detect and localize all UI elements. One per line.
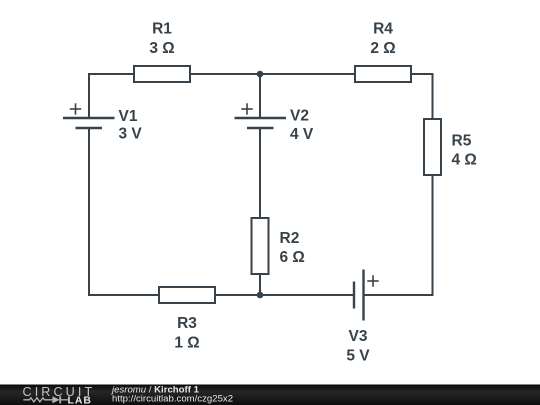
- svg-text:http://circuitlab.com/czg25x2: http://circuitlab.com/czg25x2: [112, 394, 233, 405]
- plus sign V1: [70, 103, 81, 114]
- resistor R1: [134, 66, 190, 82]
- wire: R2 bottom pin down to node B: [259, 274, 261, 295]
- svg-text:3 Ω: 3 Ω: [149, 40, 174, 57]
- wire: bottom middle horizontal (R3 right pin through node B to V3 - plate): [215, 294, 354, 296]
- resistor R4: [355, 66, 411, 82]
- plus sign V3: [367, 275, 378, 286]
- wire: bottom-right horizontal (V3 + plate to right rail): [364, 294, 434, 296]
- wire: left rail lower (V1 - plate down to bottom wire): [88, 128, 90, 296]
- battery V1: [63, 118, 115, 128]
- svg-text:4 V: 4 V: [290, 126, 314, 143]
- svg-text:6 Ω: 6 Ω: [280, 249, 305, 266]
- svg-text:V2: V2: [290, 108, 309, 125]
- svg-text:1 Ω: 1 Ω: [174, 335, 199, 352]
- svg-text:V1: V1: [119, 108, 138, 125]
- battery V2: [235, 118, 287, 128]
- plus sign V2: [241, 103, 252, 114]
- wire: V2 branch upper (node A down to V2 + plate): [259, 74, 261, 118]
- logo diode triangle: [52, 396, 59, 403]
- wire: bottom-left horizontal (left rail to R3 left pin): [88, 294, 160, 296]
- svg-text:4 Ω: 4 Ω: [452, 152, 477, 169]
- wire: right rail lower (R5 bottom pin down to bottom wire): [432, 175, 434, 296]
- resistor R2: [252, 218, 269, 274]
- wire: top middle horizontal (R1 right pin through node A to R4 left pin): [190, 73, 356, 75]
- svg-text:5 V: 5 V: [346, 348, 370, 365]
- node B (bottom junction): [257, 292, 264, 299]
- svg-text:V3: V3: [349, 328, 368, 345]
- svg-text:2 Ω: 2 Ω: [370, 40, 395, 57]
- node A (top junction): [257, 71, 264, 78]
- svg-text:R2: R2: [280, 230, 300, 247]
- wire: top-left horizontal (V1 top to R1 left pin): [88, 73, 134, 75]
- svg-text:R3: R3: [177, 315, 197, 332]
- resistor R5: [424, 119, 441, 175]
- resistor R3: [159, 287, 215, 303]
- wire: top-right horizontal (R4 right pin to right rail): [411, 73, 434, 75]
- svg-text:3 V: 3 V: [119, 126, 143, 143]
- footer bar: [0, 385, 540, 405]
- logo resistor zigzag and diode: [23, 396, 68, 403]
- svg-text:R1: R1: [152, 21, 172, 38]
- wire: V2 branch lower (V2 - plate down to R2 top pin): [259, 128, 261, 218]
- svg-text:LAB: LAB: [68, 396, 92, 405]
- wire: left rail upper (top wire down to V1 + plate): [88, 73, 90, 118]
- svg-text:R5: R5: [452, 133, 472, 150]
- wire: right rail upper (top wire down to R5 top pin): [432, 73, 434, 119]
- battery V3: [354, 270, 364, 321]
- svg-text:R4: R4: [373, 21, 393, 38]
